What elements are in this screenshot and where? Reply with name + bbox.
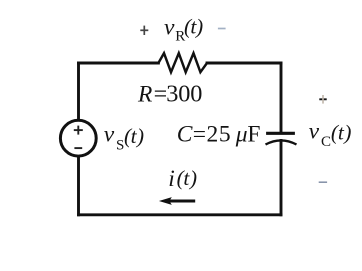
svg-text:): ) xyxy=(135,124,144,148)
svg-text:μ: μ xyxy=(235,122,248,148)
svg-text:): ) xyxy=(342,121,351,145)
svg-text:C: C xyxy=(177,122,193,148)
svg-text:0: 0 xyxy=(178,81,190,108)
svg-text:=: = xyxy=(193,122,206,148)
label plus of vC xyxy=(319,95,326,104)
svg-text:3: 3 xyxy=(166,81,178,108)
svg-text:v: v xyxy=(309,119,320,145)
svg-text:R: R xyxy=(137,82,152,108)
svg-text:v: v xyxy=(104,122,115,148)
label vC(t) xyxy=(309,119,352,150)
svg-text:): ) xyxy=(194,14,203,38)
svg-text:F: F xyxy=(247,122,260,148)
voltage source VS xyxy=(60,120,96,156)
label vR(t) xyxy=(164,14,203,44)
wire top-right segment xyxy=(207,62,281,65)
wire left upper xyxy=(77,63,80,124)
wire bottom segment xyxy=(79,213,282,216)
wire left lower xyxy=(77,152,80,215)
resistor R xyxy=(158,53,207,72)
label minus of vR xyxy=(218,28,226,30)
svg-text:v: v xyxy=(164,15,175,41)
svg-text:0: 0 xyxy=(190,81,202,108)
label i(t) xyxy=(168,166,197,192)
label vS(t) xyxy=(104,122,144,154)
svg-text:2: 2 xyxy=(207,122,219,148)
label minus of vC xyxy=(319,181,327,183)
label plus of vR xyxy=(140,26,148,35)
label R=300 xyxy=(137,81,202,108)
wire right lower xyxy=(280,141,283,215)
capacitor C xyxy=(266,133,297,144)
svg-text:5: 5 xyxy=(219,122,231,148)
wire top-left segment xyxy=(79,62,159,65)
svg-text:i: i xyxy=(168,166,175,192)
svg-text:=: = xyxy=(154,82,168,108)
svg-text:): ) xyxy=(188,166,197,190)
wire right upper xyxy=(280,63,283,133)
svg-text:C: C xyxy=(321,134,331,150)
label C=25 uF xyxy=(177,122,261,148)
current arrow i xyxy=(159,197,195,205)
